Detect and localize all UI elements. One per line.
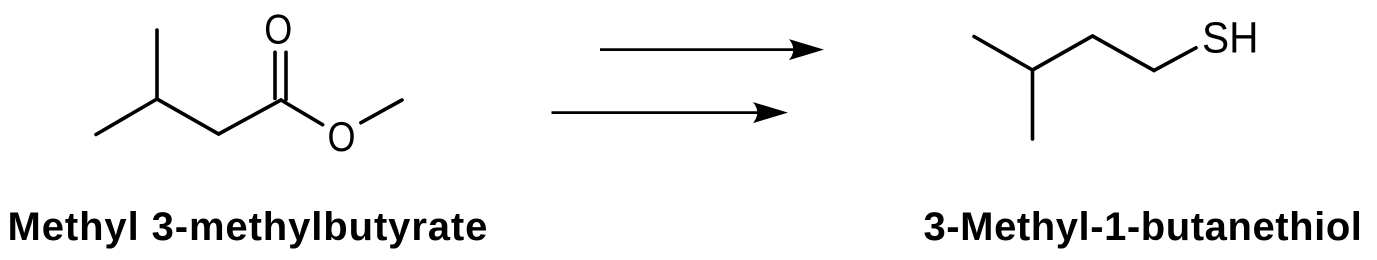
wire bond C3-methyl [155, 30, 159, 99]
wire bond C1-O(ester) [281, 100, 323, 125]
svg-text:3-Methyl-1-butanethiol: 3-Methyl-1-butanethiol [924, 205, 1363, 249]
wire bond C3-C2 [1033, 36, 1093, 70]
wire bond O(ester)-OCH3 [361, 100, 402, 123]
wire bond methyl-C3 [974, 37, 1033, 71]
wire bond C2-C1 [219, 100, 281, 134]
svg-text:SH: SH [1202, 15, 1259, 63]
wire bond C3-methyl(down) [1031, 70, 1035, 139]
wire bond C4-C3 [96, 99, 157, 135]
wire bond C1-S [1154, 48, 1196, 71]
svg-text:Methyl 3-methylbutyrate: Methyl 3-methylbutyrate [8, 205, 489, 249]
arrow 2 (bottom) [552, 102, 789, 123]
double bond C1=O [273, 52, 277, 98]
svg-text:O: O [328, 113, 356, 160]
wire bond C3-C2 [157, 99, 219, 134]
wire bond C2-C1 [1093, 36, 1155, 71]
arrow 1 (top) [600, 39, 824, 60]
svg-text:O: O [264, 5, 292, 52]
